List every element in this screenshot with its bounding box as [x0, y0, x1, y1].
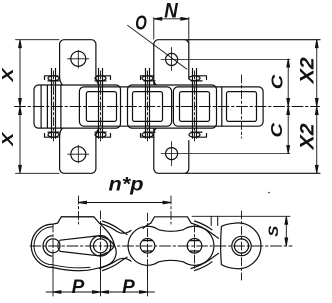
- svg-text:n*p: n*p: [109, 175, 144, 196]
- svg-text:S: S: [266, 226, 281, 237]
- svg-text:N: N: [164, 0, 178, 22]
- svg-text:C: C: [270, 74, 287, 90]
- svg-text:C: C: [269, 122, 286, 138]
- svg-text:P: P: [122, 277, 135, 298]
- svg-text:X: X: [0, 67, 17, 83]
- svg-text:X2: X2: [298, 57, 319, 85]
- svg-text:O: O: [135, 13, 147, 35]
- svg-text:P: P: [72, 277, 85, 298]
- svg-text:X2: X2: [298, 123, 319, 151]
- svg-text:X: X: [0, 131, 17, 147]
